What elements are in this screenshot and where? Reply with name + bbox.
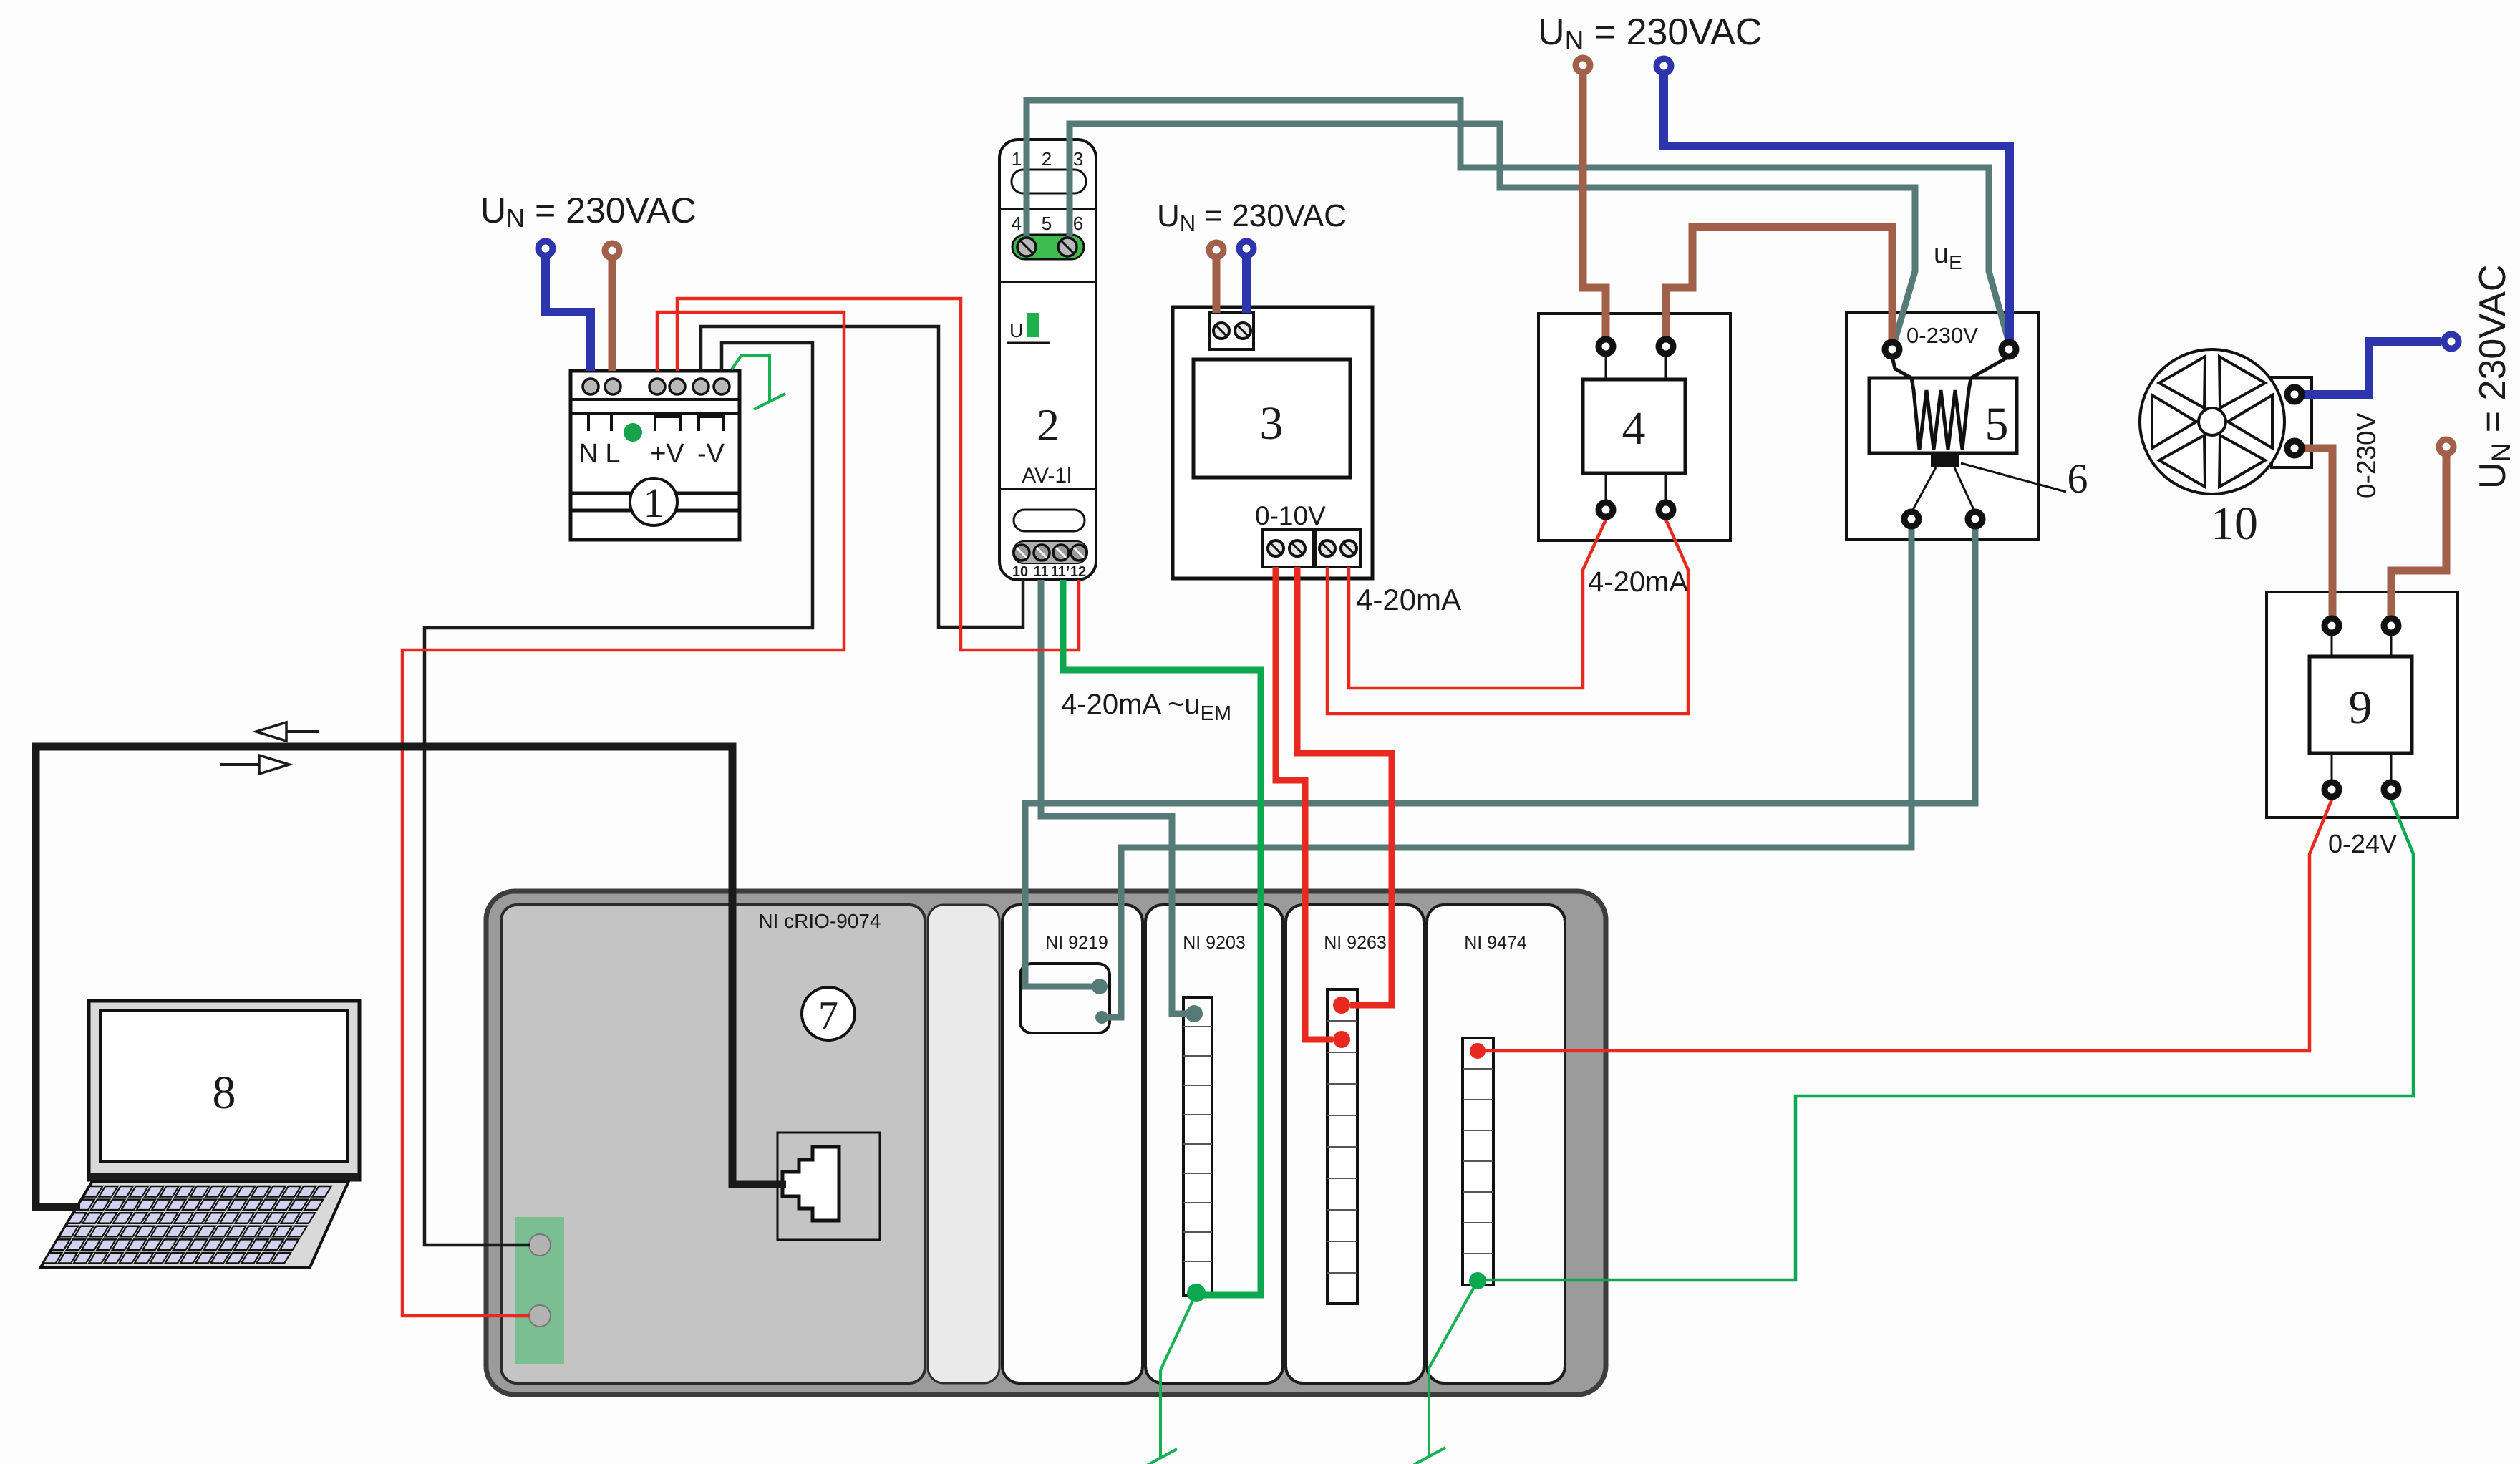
svg-text:8: 8 <box>213 1067 236 1119</box>
svg-text:AV-1l: AV-1l <box>1022 464 1071 488</box>
svg-text:11: 11 <box>1033 564 1048 580</box>
svg-text:0-230V: 0-230V <box>1906 323 1978 348</box>
svg-text:U: U <box>1009 320 1024 341</box>
svg-text:10: 10 <box>2211 498 2258 550</box>
svg-text:3: 3 <box>1260 397 1284 450</box>
svg-text:4-20mA: 4-20mA <box>1588 566 1688 598</box>
svg-text:7: 7 <box>818 994 838 1038</box>
svg-text:L: L <box>605 439 620 469</box>
svg-text:2: 2 <box>1042 148 1052 170</box>
svg-text:11’: 11’ <box>1051 564 1070 580</box>
svg-text:12: 12 <box>1070 564 1086 580</box>
svg-text:5: 5 <box>1042 213 1052 234</box>
svg-text:4: 4 <box>1012 213 1022 234</box>
svg-text:5: 5 <box>1985 398 2009 450</box>
svg-text:-V: -V <box>697 439 725 469</box>
svg-text:6: 6 <box>1073 213 1083 234</box>
svg-text:4: 4 <box>1622 402 1646 455</box>
svg-text:NI 9474: NI 9474 <box>1464 933 1527 953</box>
svg-text:1: 1 <box>644 480 664 526</box>
svg-text:10: 10 <box>1012 564 1028 580</box>
svg-text:NI 9203: NI 9203 <box>1183 933 1246 953</box>
svg-text:NI cRIO-9074: NI cRIO-9074 <box>758 910 881 932</box>
svg-text:1: 1 <box>1012 148 1022 170</box>
svg-text:0-10V: 0-10V <box>1255 501 1326 530</box>
svg-text:3: 3 <box>1073 148 1083 170</box>
svg-text:2: 2 <box>1037 399 1060 450</box>
svg-text:+V: +V <box>650 439 684 469</box>
svg-text:4-20mA: 4-20mA <box>1356 583 1461 616</box>
svg-text:0-24V: 0-24V <box>2328 829 2397 858</box>
svg-text:N: N <box>578 439 598 469</box>
svg-text:6: 6 <box>2068 455 2088 502</box>
svg-text:NI 9219: NI 9219 <box>1045 933 1108 953</box>
svg-text:9: 9 <box>2349 682 2373 734</box>
svg-text:NI 9263: NI 9263 <box>1324 933 1387 953</box>
svg-text:0-230V: 0-230V <box>2352 412 2381 498</box>
